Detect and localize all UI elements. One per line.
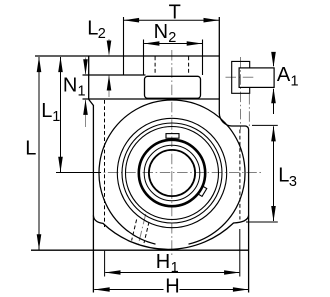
svg-text:H: H: [156, 251, 170, 273]
svg-text:1: 1: [171, 260, 179, 276]
svg-text:A: A: [277, 64, 291, 86]
svg-text:T: T: [169, 1, 181, 23]
svg-text:3: 3: [289, 174, 297, 190]
svg-text:N: N: [154, 21, 168, 43]
svg-text:N: N: [63, 75, 77, 97]
svg-text:L: L: [278, 164, 289, 186]
svg-text:1: 1: [52, 109, 60, 125]
svg-text:H: H: [165, 275, 179, 297]
svg-text:1: 1: [291, 74, 299, 90]
svg-text:L: L: [25, 137, 36, 159]
svg-text:L: L: [41, 100, 52, 122]
svg-text:2: 2: [98, 26, 106, 42]
svg-text:2: 2: [168, 30, 176, 46]
svg-text:1: 1: [78, 84, 86, 100]
